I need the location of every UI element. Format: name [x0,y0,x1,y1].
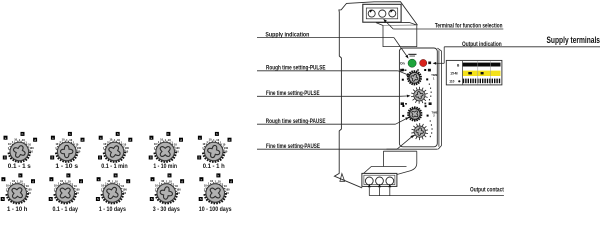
svg-text:1: 1 [17,180,19,184]
red output LED [420,59,427,66]
svg-text:1 - 10 s: 1 - 10 s [55,163,78,170]
svg-text:10: 10 [76,191,79,195]
svg-text:10: 10 [176,150,179,154]
output terminal screw 2 [376,177,384,185]
leader arrow output screw at x=369.3 [368,187,370,195]
svg-text:15-M: 15-M [450,72,458,76]
svg-text:10: 10 [103,142,106,146]
svg-text:1: 1 [6,187,8,191]
svg-text:10: 10 [101,184,104,188]
svg-text:10: 10 [160,138,163,142]
svg-text:10: 10 [123,191,126,195]
svg-text:Output contact: Output contact [470,187,504,194]
svg-text:S: S [50,197,52,201]
svg-text:1: 1 [19,138,21,142]
svg-text:1: 1 [8,146,10,150]
top terminal screw 2 [379,10,386,17]
svg-text:S: S [198,156,200,160]
svg-text:S: S [4,156,6,160]
rotary dial range 1 - 10 s [50,132,84,163]
svg-text:100: 100 [122,187,127,191]
legend grid lines [462,61,464,84]
svg-text:S: S [99,156,101,160]
rotary dial range 1 - 10 min [149,132,183,163]
svg-text:10: 10 [202,142,205,146]
svg-text:10: 10 [107,179,110,183]
marking legend box [446,60,502,85]
timer module left side profile [334,2,374,188]
svg-text:10: 10 [75,142,78,146]
svg-text:1: 1 [54,187,56,191]
panel knob rough PAUSE (TIME 2 coarse) [402,105,428,122]
svg-text:10: 10 [12,179,15,183]
svg-text:1: 1 [66,138,68,142]
svg-text:110: 110 [449,80,454,84]
svg-text:Supply terminals: Supply terminals [547,35,600,45]
svg-text:100: 100 [29,146,34,150]
svg-text:1: 1 [213,138,215,142]
output terminal screw 1 [365,177,373,185]
svg-text:S: S [150,156,152,160]
fine knob 1 scale digits [429,84,432,101]
svg-text:S: S [51,156,53,160]
svg-text:0.1 - 1 day: 0.1 - 1 day [52,206,78,213]
leader arrow to red LED [436,62,444,64]
top terminal block [363,4,401,22]
svg-text:10: 10 [26,184,29,188]
svg-text:10: 10 [55,142,58,146]
svg-text:10: 10 [6,184,9,188]
rotary dial range 10 - 100 days [199,173,233,204]
leader output indication down [443,47,445,64]
leader arrow to knob TIME1 fine [399,95,407,97]
svg-text:10: 10 [222,142,225,146]
svg-text:10: 10 [161,179,164,183]
svg-text:1: 1 [65,180,67,184]
svg-text:1: 1 [114,138,116,142]
leader line Terminal for function selection [393,28,503,30]
leader arrow to green LED [400,47,406,56]
rotary dial range 0.1 - 1 s [3,132,37,163]
svg-text:10: 10 [121,184,124,188]
svg-text:10: 10 [224,150,227,154]
svg-text:0.1 - 1 min: 0.1 - 1 min [101,163,128,170]
rotary dial range 0.1 - 1 h [197,132,231,163]
legend black bar [463,63,501,67]
panel glyph row 1 [400,69,403,72]
legend striped bar [463,79,500,84]
module roof edge [374,2,417,25]
leader arrow to knob TIME2 fine [397,137,411,149]
leader line Rough PULSE [257,70,398,72]
svg-text:1: 1 [55,146,57,150]
svg-text:3 - 30 days: 3 - 30 days [153,206,180,213]
svg-text:1: 1 [101,187,103,191]
leader line Rough PAUSE [257,123,396,125]
leader line Fine PULSE [257,95,399,97]
svg-text:1 - 10 min: 1 - 10 min [153,163,177,170]
leader arrow output screw at x=389.8 [389,187,391,195]
svg-text:1: 1 [166,180,168,184]
svg-text:10: 10 [177,191,180,195]
svg-text:On: On [400,62,405,66]
top terminal screw 1 [368,10,375,17]
svg-text:S: S [200,197,202,201]
svg-text:1: 1 [112,180,114,184]
svg-text:100: 100 [75,187,80,191]
svg-text:10: 10 [30,150,33,154]
svg-text:1: 1 [155,187,157,191]
svg-text:10: 10 [14,138,17,142]
bottom terminal block [362,173,397,186]
DIN clip tab [340,174,345,182]
svg-text:10: 10 [77,150,80,154]
panel top tiny marking [408,54,416,55]
top neck pedestal [376,22,417,25]
fine knob 2 scale digits [430,120,433,137]
svg-text:1: 1 [103,146,105,150]
svg-text:10: 10 [210,179,213,183]
svg-text:1: 1 [202,146,204,150]
svg-text:10 - 100 days: 10 - 100 days [199,206,232,213]
svg-text:10: 10 [155,184,158,188]
svg-text:1: 1 [154,146,156,150]
panel knob fine PAUSE (TIME 2 fine) [411,123,428,140]
leader arrow to knob TIME1 coarse [398,71,407,75]
panel glyph row 2 [401,102,404,105]
svg-text:S: S [151,197,153,201]
svg-text:100: 100 [175,146,180,150]
svg-text:10: 10 [174,142,177,146]
top terminal screw 3 [389,10,396,17]
svg-text:1: 1 [165,138,167,142]
panel knob fine PULSE (TIME 1 fine) [411,87,428,104]
legend yellow bar [463,71,501,76]
svg-text:Terminal for function selectio: Terminal for function selection [435,22,503,29]
svg-text:10: 10 [62,138,65,142]
svg-text:10: 10 [74,184,77,188]
svg-text:10: 10 [8,142,11,146]
svg-text:10: 10 [28,142,31,146]
body right side face [437,48,441,149]
svg-text:10: 10 [226,191,229,195]
svg-text:10: 10 [125,150,128,154]
shared underline supply terminals / output indication [444,46,600,48]
svg-text:1 - 10 days: 1 - 10 days [99,206,126,213]
leader arrow to knob TIME2 coarse [396,119,406,124]
svg-text:10: 10 [123,142,126,146]
rotary dial range 0.1 - 1 min [98,132,132,163]
leader line Supply indication [257,37,394,39]
leader arrow to middle top screw [386,22,393,30]
front panel plate [399,48,437,147]
neck box [383,25,417,46]
svg-text:10: 10 [175,184,178,188]
rotary dial range 0.1 - 1 day [49,173,83,204]
leader line Fine PAUSE [257,148,397,150]
svg-text:10: 10 [154,142,157,146]
svg-text:10: 10 [209,138,212,142]
rotary dial range 3 - 30 days [150,173,184,204]
svg-text:S: S [97,197,99,201]
svg-text:1 - 10 h: 1 - 10 h [7,206,28,213]
svg-text:0.1 - 1 s: 0.1 - 1 s [8,163,31,170]
leader line Output contact [369,195,504,197]
svg-text:10: 10 [204,184,207,188]
svg-text:1: 1 [204,187,206,191]
lower step block [362,149,437,174]
svg-text:100: 100 [27,187,32,191]
panel knob rough PULSE (TIME 1 coarse) [402,69,428,86]
svg-text:100: 100 [77,146,82,150]
svg-text:10: 10 [28,191,31,195]
output terminal screw 3 [386,177,394,185]
svg-text:1: 1 [215,180,217,184]
svg-text:100: 100 [225,187,230,191]
svg-text:100: 100 [176,187,181,191]
leader arrow output screw at x=379.5 [379,187,381,195]
green supply LED [408,59,416,67]
svg-text:100: 100 [224,146,229,150]
svg-text:S: S [2,197,4,201]
rotary dial range 1 - 10 h [1,173,35,204]
svg-text:100: 100 [125,146,130,150]
svg-text:10: 10 [109,138,112,142]
R label [428,62,431,65]
svg-text:0.1 - 1 h: 0.1 - 1 h [203,163,225,170]
svg-text:10: 10 [54,184,57,188]
rotary dial range 1 - 10 days [96,173,130,204]
svg-text:10: 10 [60,179,63,183]
svg-text:10: 10 [224,184,227,188]
